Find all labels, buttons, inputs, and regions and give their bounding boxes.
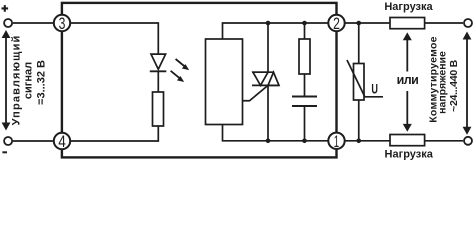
- wire: load bottom from terminal 1: [346, 140, 391, 142]
- triac VS1: [252, 72, 279, 85]
- terminal right top (open circle): [464, 19, 472, 27]
- svg-text:Нагрузка: Нагрузка: [384, 1, 433, 13]
- node: triac top junction: [266, 21, 271, 26]
- terminal 4: [54, 133, 70, 149]
- plus symbol: [2, 5, 9, 12]
- varistor RU1: [347, 60, 383, 100]
- label commutated voltage (rotated): [427, 36, 460, 122]
- svg-text:Нагрузка: Нагрузка: [385, 148, 434, 160]
- resistor load top (Нагрузка): [390, 18, 425, 29]
- svg-text:1: 1: [334, 132, 339, 151]
- terminal + (open circle): [4, 19, 12, 27]
- svg-text:Управляющий: Управляющий: [11, 35, 23, 126]
- minus symbol: [2, 151, 7, 153]
- terminal 3: [54, 15, 70, 31]
- node: triac bottom junction: [266, 139, 271, 144]
- terminal 2: [328, 15, 344, 31]
- svg-text:2: 2: [333, 14, 340, 33]
- wire: triac bottom branch: [267, 85, 269, 140]
- wire: left input - lead: [13, 140, 53, 142]
- wire: varistor branch bottom: [358, 100, 360, 141]
- resistor load bottom (Нагрузка): [390, 135, 425, 146]
- resistor R2 (snubber): [299, 39, 310, 74]
- node: varistor bottom junction: [356, 139, 361, 144]
- node: varistor top junction: [356, 21, 361, 26]
- wire: snubber mid: [304, 74, 306, 96]
- wire: triac gate from chip: [243, 85, 269, 100]
- wire: varistor branch top: [358, 23, 360, 64]
- wire: output top bus terminal 2 to chip: [223, 23, 337, 39]
- control voltage double arrow: [2, 30, 11, 131]
- wire: load top from terminal 2: [346, 22, 391, 24]
- node: snubber top junction: [302, 21, 307, 26]
- capacitor C1 plate bottom: [292, 105, 317, 107]
- relay body box: [62, 3, 337, 158]
- wire: load bottom to right terminal: [425, 140, 464, 142]
- "или" alternative double arrow: [403, 32, 412, 131]
- capacitor C1 plate top: [292, 96, 317, 98]
- node: snubber bottom junction: [302, 139, 307, 144]
- LED D1: [151, 54, 166, 69]
- terminal - (open circle): [4, 137, 12, 145]
- LED cathode bar: [150, 70, 167, 72]
- wire: output bottom bus chip to terminal 1: [223, 125, 337, 141]
- wire: input top from terminal 3 to LED column: [62, 23, 158, 54]
- svg-text:=3...32 В: =3...32 В: [36, 60, 48, 105]
- svg-text:U: U: [371, 83, 378, 97]
- wire: snubber top branch: [304, 23, 306, 39]
- wire: load top to right terminal: [425, 22, 464, 24]
- resistor R1 (input series): [153, 92, 164, 126]
- svg-text:4: 4: [58, 132, 66, 151]
- svg-text:сигнал: сигнал: [23, 62, 35, 99]
- wire: snubber bottom: [304, 107, 306, 141]
- terminal right bottom (open circle): [464, 137, 472, 145]
- label U (varistor): [371, 83, 378, 97]
- wire: triac top branch: [267, 23, 269, 72]
- LED emission arrow 2: [171, 71, 185, 82]
- LED emission arrow 1: [176, 59, 190, 70]
- terminal 1: [328, 133, 344, 149]
- wire: left input + lead: [13, 22, 53, 24]
- svg-text:или: или: [397, 73, 419, 87]
- commutated voltage double arrow: [463, 32, 472, 135]
- svg-text:~24...440 В: ~24...440 В: [448, 59, 460, 111]
- label control signal (rotated): [11, 35, 48, 126]
- svg-text:напряжение: напряжение: [436, 51, 448, 114]
- wire: input bottom from terminal 4 to LED resistor: [62, 126, 158, 141]
- svg-text:3: 3: [59, 14, 66, 33]
- opto/driver chip U1: [206, 39, 243, 125]
- wire: LED to resistor: [157, 71, 159, 92]
